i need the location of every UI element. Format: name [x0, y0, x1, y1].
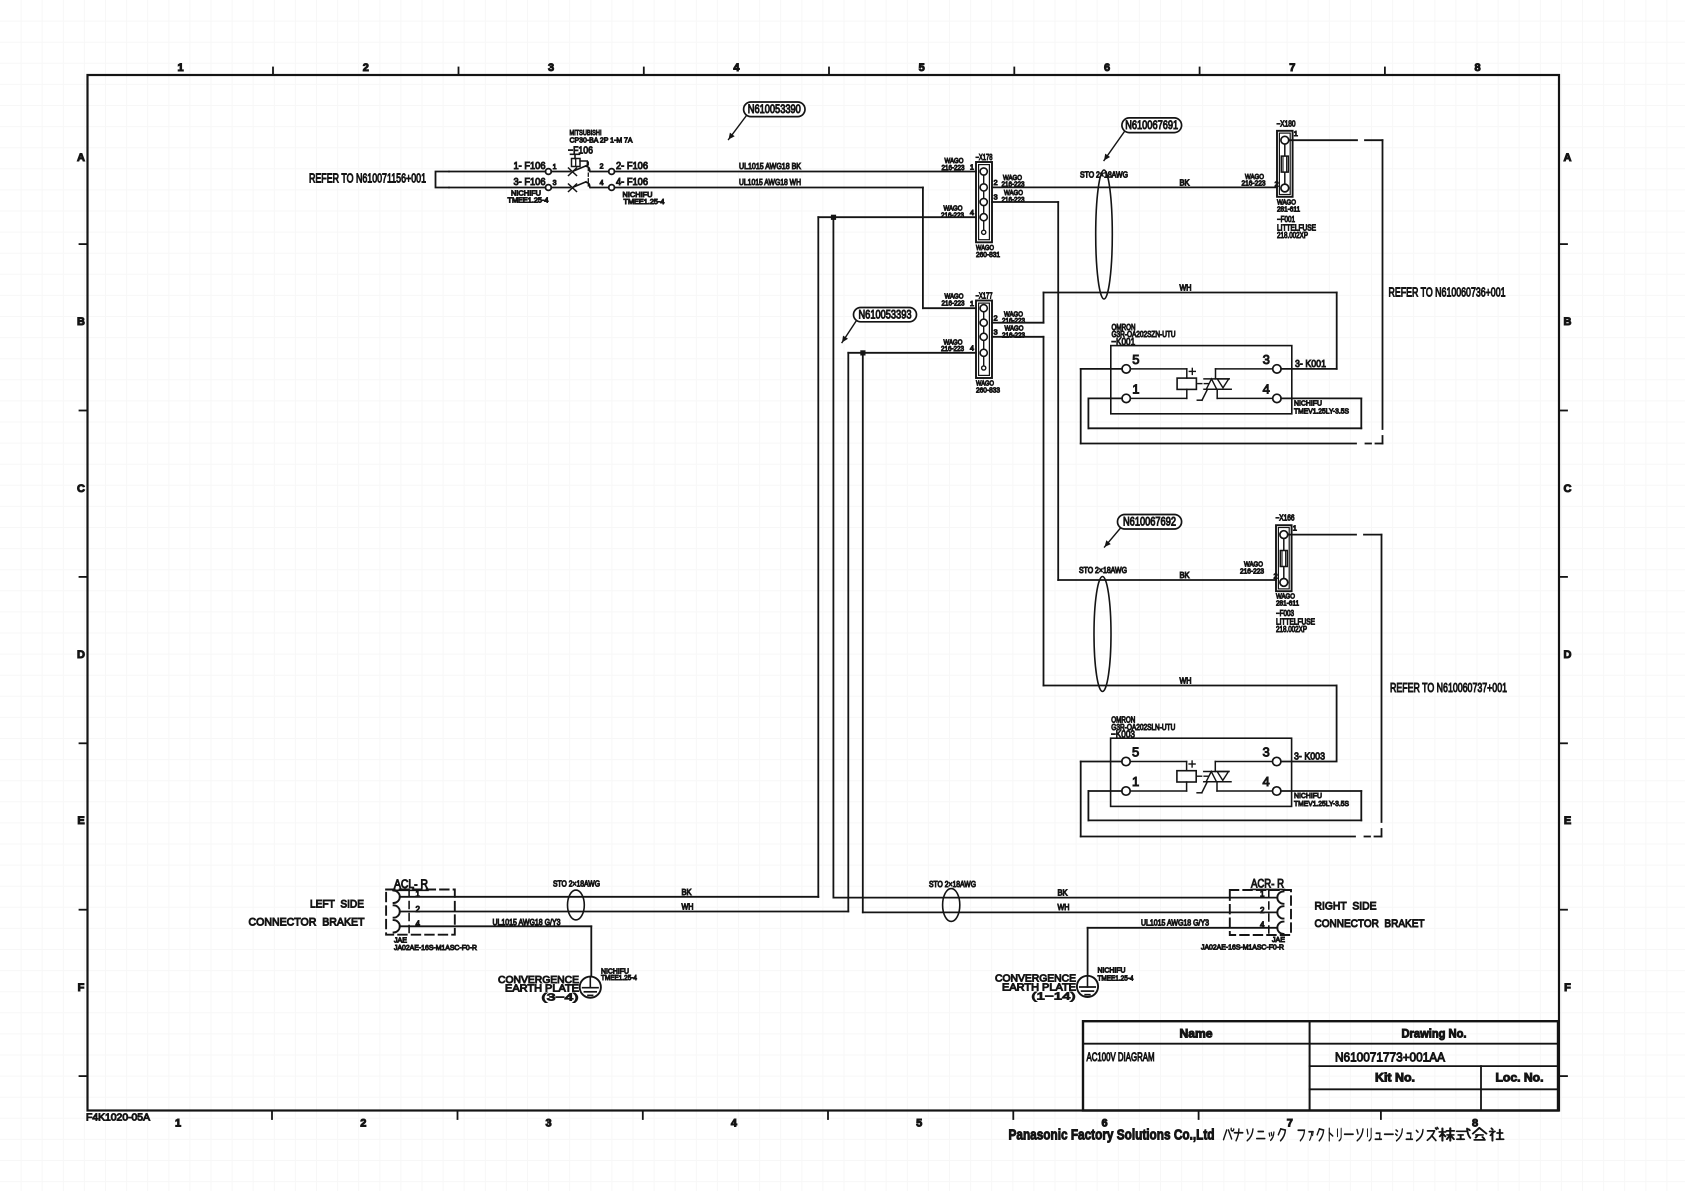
X177 WAGO 216-223 label pin3	[1002, 324, 1025, 340]
svg-text:B: B	[77, 316, 85, 328]
dashed boundary to REFER TO N610060736+001	[1289, 140, 1383, 443]
wire K001-3 to WH drop	[1281, 368, 1337, 370]
label NICHIFU TMEV1.25LY-3.5S (K001-4)	[1294, 398, 1349, 415]
svg-text:1: 1	[1260, 889, 1265, 898]
wire K001-1 / K001-4 loop	[1088, 398, 1361, 428]
fuse X166 / F003 (LITTELFUSE 218.002XP)	[1276, 514, 1316, 635]
svg-text:C: C	[77, 483, 85, 495]
svg-text:BK: BK	[1058, 889, 1069, 898]
wire X178-3 to circuit2 BK	[992, 202, 1276, 580]
X177 WAGO 216-223 label pin1	[942, 292, 965, 308]
wire K003-5 to boundary	[1081, 762, 1355, 837]
frame ruler: right row letters	[1559, 152, 1572, 1076]
svg-text:N610053393: N610053393	[859, 309, 912, 321]
svg-text:N610071773+001AA: N610071773+001AA	[1335, 1050, 1446, 1064]
X178 WAGO 216-223 label pin2	[1002, 173, 1025, 189]
X178 WAGO 216-223 label pin3	[1002, 188, 1025, 204]
label BK (bottom right)	[1058, 889, 1069, 898]
svg-text:C: C	[1564, 483, 1572, 495]
svg-text:STO 2×18AWG: STO 2×18AWG	[553, 880, 600, 889]
label 3- K003	[1294, 751, 1325, 763]
svg-text:2: 2	[994, 313, 998, 322]
wire X178-4 to bottom BK buses	[818, 216, 976, 218]
frame border	[88, 75, 1560, 1111]
svg-text:BK: BK	[1180, 178, 1191, 187]
svg-text:4: 4	[970, 208, 974, 217]
svg-text:1: 1	[970, 299, 974, 308]
WAGO 216-223 label at fuse X180	[1242, 172, 1279, 189]
svg-text:216-223: 216-223	[941, 344, 964, 353]
label 3- K001	[1295, 358, 1326, 370]
svg-text:3: 3	[1262, 745, 1269, 760]
svg-text:2: 2	[1260, 906, 1265, 915]
svg-text:7: 7	[1289, 62, 1295, 74]
form number F4K1020-05A	[86, 1113, 150, 1124]
svg-text:TMEV1.25LY-3.5S: TMEV1.25LY-3.5S	[1294, 406, 1349, 415]
svg-text:WH: WH	[682, 903, 694, 912]
svg-text:4: 4	[416, 920, 421, 929]
svg-text:JA02AE-16S-M1ASC-F0-R: JA02AE-16S-M1ASC-F0-R	[1201, 942, 1285, 951]
svg-text:8: 8	[1475, 62, 1481, 74]
svg-text:STO 2×18AWG: STO 2×18AWG	[1080, 170, 1128, 179]
svg-text:TMEE1.25-4: TMEE1.25-4	[624, 197, 665, 206]
svg-text:TMEE1.25-4: TMEE1.25-4	[508, 196, 549, 205]
relay K003 (OMRON G3R-OA202SLN-UTU solid state relay)	[1111, 716, 1292, 807]
svg-text:B: B	[1564, 316, 1572, 328]
frame ruler: left row letters	[77, 152, 87, 1076]
WAGO 216-223 label at fuse X166	[1240, 560, 1278, 581]
label NICHIFU TMEE1.25-4 (right earth)	[1098, 966, 1134, 983]
svg-text:REFER TO N610071156+001: REFER TO N610071156+001	[309, 172, 426, 186]
svg-text:UL1015 AWG18 BK: UL1015 AWG18 BK	[739, 162, 802, 171]
X177 pin numbers	[970, 299, 998, 353]
svg-text:2: 2	[416, 905, 421, 914]
svg-text:1: 1	[970, 163, 974, 172]
svg-text:260-833: 260-833	[976, 386, 1000, 395]
svg-text:TMEV1.25LY-3.5S: TMEV1.25LY-3.5S	[1294, 799, 1349, 808]
svg-text:281-611: 281-611	[1276, 599, 1299, 608]
wire BK bus right (to ACR-1)	[833, 897, 1277, 899]
balloon label N610067691	[1104, 118, 1182, 161]
earth: CONVERGENCE EARTH PLATE (3-4)	[498, 974, 601, 1004]
label BK (bottom left)	[682, 888, 693, 897]
svg-text:(1−14): (1−14)	[1032, 990, 1076, 1002]
balloon label N610067692	[1105, 515, 1182, 548]
svg-text:218.002XP: 218.002XP	[1277, 231, 1308, 240]
wire BK bus left (ACL-1)	[400, 896, 819, 898]
svg-text:(3−4): (3−4)	[542, 992, 579, 1004]
svg-text:F: F	[78, 982, 85, 994]
svg-text:REFER TO N610060737+001: REFER TO N610060737+001	[1390, 681, 1507, 695]
terminal label NICHIFU TMEE1.25-4 (left of F106)	[508, 189, 549, 205]
svg-text:2: 2	[994, 178, 998, 187]
svg-text:216-223: 216-223	[942, 163, 965, 172]
frame ruler: bottom column numbers	[175, 1111, 1478, 1130]
label WH (bottom left)	[682, 903, 694, 912]
node: REFER TO N610071156+001 (AC source)	[309, 172, 449, 188]
svg-text:1: 1	[177, 62, 183, 74]
connector ACL-R (JAE JA02AE-16S-M1ASC-F0-R)	[386, 877, 455, 935]
svg-text:281-611: 281-611	[1277, 204, 1300, 213]
svg-text:STO 2×18AWG: STO 2×18AWG	[1079, 566, 1127, 575]
svg-text:WH: WH	[1058, 903, 1070, 912]
svg-text:JA02AE-16S-M1ASC-F0-R: JA02AE-16S-M1ASC-F0-R	[394, 943, 478, 952]
connector X177 (WAGO 260-833)	[976, 292, 1001, 395]
svg-text:8: 8	[1472, 1118, 1478, 1130]
svg-text:218.002XP: 218.002XP	[1276, 625, 1307, 634]
svg-text:F4K1020-05A: F4K1020-05A	[86, 1113, 150, 1124]
wire K003-1 / K003-4 loop	[1088, 791, 1361, 820]
svg-text:CONNECTOR BRAKET: CONNECTOR BRAKET	[1315, 918, 1425, 930]
svg-text:5: 5	[919, 62, 925, 74]
label NICHIFU TMEE1.25-4 (left earth)	[601, 966, 637, 982]
svg-text:Drawing No.: Drawing No.	[1402, 1027, 1467, 1041]
wire UL1015 AWG18 BK (F106-2 to X178-1)	[615, 162, 977, 172]
X178 WAGO 216-223 label pin1	[942, 156, 965, 172]
svg-text:216-223: 216-223	[942, 299, 965, 308]
svg-text:1: 1	[1294, 129, 1298, 138]
label WH (bottom right)	[1058, 903, 1070, 912]
svg-text:Name: Name	[1180, 1027, 1213, 1041]
svg-text:AC100V DIAGRAM: AC100V DIAGRAM	[1087, 1052, 1155, 1064]
svg-text:CONNECTOR BRAKET: CONNECTOR BRAKET	[249, 916, 365, 928]
terminal label NICHIFU TMEE1.25-4 (right of F106)	[623, 190, 665, 206]
svg-text:D: D	[77, 649, 85, 661]
svg-text:6: 6	[1104, 62, 1110, 74]
svg-text:4: 4	[1262, 774, 1269, 789]
svg-text:3: 3	[1263, 352, 1270, 367]
svg-text:1: 1	[175, 1118, 181, 1130]
svg-text:260-831: 260-831	[976, 250, 1000, 259]
svg-text:2: 2	[363, 62, 369, 74]
connector ACR-R (JAE JA02AE-16S-M1ASC-F0-R)	[1230, 876, 1291, 935]
svg-text:1: 1	[1132, 381, 1139, 396]
svg-text:N610053390: N610053390	[748, 104, 801, 116]
wire G/Y left (ACL-4 to earth)	[400, 918, 592, 977]
svg-text:BK: BK	[682, 888, 693, 897]
svg-text:3: 3	[994, 193, 998, 202]
wire G/Y right (to ACR-4 and earth)	[1088, 919, 1278, 976]
svg-text:4: 4	[1260, 921, 1265, 930]
frame ruler: top column numbers	[177, 62, 1480, 75]
wire: right WH drop	[862, 353, 864, 913]
cable sheath STO 2x18AWG (bottom right)	[929, 880, 976, 921]
X177 WAGO 216-223 label pin2	[1002, 309, 1025, 325]
svg-text:4: 4	[970, 344, 974, 353]
text RIGHT SIDE CONNECTOR BRAKET	[1315, 901, 1425, 931]
svg-text:−X178: −X178	[976, 153, 993, 162]
svg-text:3: 3	[546, 1118, 552, 1130]
svg-text:N610067692: N610067692	[1123, 517, 1176, 529]
relay K001 (OMRON G3R-OA202SZN-UTU solid state relay)	[1111, 323, 1292, 414]
X177 WAGO 216-223 label pin4	[941, 337, 964, 353]
svg-text:D: D	[1564, 649, 1572, 661]
svg-text:N610067691: N610067691	[1125, 120, 1178, 132]
svg-text:3: 3	[548, 62, 554, 74]
ACL-R inner divider and pins	[394, 889, 421, 934]
svg-text:E: E	[1564, 815, 1571, 827]
cable sheath STO 2x18AWG (circuit 1)	[1080, 170, 1128, 299]
cable sheath STO 2x18AWG (bottom left)	[553, 880, 600, 920]
company name Panasonic Factory Solutions	[1009, 1127, 1504, 1143]
svg-text:LEFT SIDE: LEFT SIDE	[310, 899, 364, 911]
svg-text:RIGHT SIDE: RIGHT SIDE	[1315, 901, 1377, 913]
svg-text:−K001: −K001	[1111, 336, 1135, 348]
wire UL1015 AWG18 WH (F106-4 to X177-1)	[615, 178, 977, 308]
svg-text:Kit No.: Kit No.	[1375, 1070, 1415, 1084]
wire X177-3 to circuit2 WH	[992, 337, 1337, 761]
svg-text:2- F106: 2- F106	[616, 161, 648, 172]
title block table	[1083, 1021, 1558, 1110]
svg-text:3- F106: 3- F106	[514, 177, 546, 188]
label NICHIFU TMEV1.25LY-3.5S (K003-4)	[1294, 791, 1349, 808]
text LEFT SIDE CONNECTOR BRAKET	[249, 899, 365, 929]
wire: left WH drop	[847, 353, 849, 912]
circuit breaker F106 (MITSUBISHI CP30-BA 2P 1-M 7A)	[514, 128, 649, 192]
svg-text:4: 4	[733, 62, 740, 74]
svg-text:UL1015 AWG18 G/Y3: UL1015 AWG18 G/Y3	[493, 918, 561, 927]
svg-text:−X180: −X180	[1277, 119, 1296, 128]
X178 pin numbers	[970, 163, 998, 218]
connector X178 (WAGO 260-831)	[976, 153, 1001, 259]
wire X177-4 to bottom WH buses	[848, 352, 976, 354]
svg-text:1: 1	[1293, 524, 1297, 533]
svg-text:4- F106: 4- F106	[616, 177, 648, 188]
fuse X180 / F001 (LITTELFUSE 218.002XP)	[1277, 119, 1317, 240]
wire N to breaker pin3	[449, 187, 546, 189]
label JAE JA02AE-16S-M1ASC-F0-R (left)	[394, 936, 478, 953]
svg-text:TMEE1.25-4: TMEE1.25-4	[1098, 973, 1134, 982]
svg-text:1: 1	[1132, 774, 1139, 789]
earth: CONVERGENCE EARTH PLATE (1-14)	[995, 973, 1098, 1003]
svg-text:1: 1	[553, 164, 557, 171]
svg-text:−K003: −K003	[1111, 728, 1135, 740]
svg-text:UL1015 AWG18 G/Y3: UL1015 AWG18 G/Y3	[1141, 919, 1209, 928]
svg-text:7: 7	[1287, 1118, 1293, 1130]
svg-text:CP30-BA 2P 1-M 7A: CP30-BA 2P 1-M 7A	[570, 136, 633, 145]
balloon label N610053390	[729, 102, 806, 140]
svg-text:A: A	[77, 152, 85, 164]
svg-text:A: A	[1564, 152, 1572, 164]
dashed boundary to REFER TO N610060737+001	[1288, 535, 1382, 837]
X178 WAGO 216-223 label pin4	[941, 204, 964, 220]
svg-text:4: 4	[731, 1118, 738, 1130]
title block texts	[1087, 1027, 1544, 1085]
balloon label N610053393	[842, 308, 917, 343]
svg-text:1- F106: 1- F106	[514, 161, 546, 172]
svg-text:TMEE1.25-4: TMEE1.25-4	[601, 973, 637, 982]
svg-text:2: 2	[360, 1118, 366, 1130]
wire K003-3 to WH drop	[1281, 761, 1337, 763]
wire: right BK drop	[832, 217, 834, 897]
label BK (circuit 2)	[1180, 571, 1191, 580]
wire WH X177-2 to relay K001 pin3	[992, 284, 1337, 369]
svg-text:E: E	[77, 815, 84, 827]
wire: left BK drop	[817, 217, 819, 897]
svg-text:216-223: 216-223	[1242, 179, 1266, 188]
wire BK X178-2 to fuse X180	[992, 178, 1277, 187]
svg-text:5: 5	[1132, 745, 1139, 760]
label WH (circuit 2)	[1180, 677, 1192, 686]
svg-text:Loc. No.: Loc. No.	[1496, 1070, 1544, 1084]
cable sheath STO 2x18AWG (circuit 2)	[1079, 566, 1127, 692]
svg-text:Panasonic Factory Solutions Co: Panasonic Factory Solutions Co.,Ltd	[1009, 1128, 1215, 1144]
svg-text:WH: WH	[1180, 677, 1192, 686]
svg-text:4: 4	[600, 180, 604, 187]
svg-text:216-223: 216-223	[1240, 566, 1264, 575]
svg-text:2: 2	[600, 164, 604, 171]
wire WH bus left (ACL-2)	[400, 911, 849, 913]
text REFER TO N610060737+001	[1390, 681, 1507, 695]
svg-text:WH: WH	[1180, 284, 1192, 293]
text REFER TO N610060736+001	[1389, 285, 1506, 299]
svg-text:3: 3	[553, 180, 557, 187]
wire L to breaker pin1	[449, 171, 546, 173]
svg-text:BK: BK	[1180, 571, 1191, 580]
svg-text:−X177: −X177	[976, 292, 993, 301]
junction on X178-4 wire	[831, 215, 836, 220]
label JAE JA02AE-16S-M1ASC-F0-R (right)	[1201, 935, 1285, 952]
svg-text:REFER TO N610060736+001: REFER TO N610060736+001	[1389, 285, 1506, 299]
svg-text:5: 5	[1132, 352, 1139, 367]
svg-text:3: 3	[994, 328, 998, 337]
wire K001-5 to boundary	[1081, 369, 1356, 444]
svg-text:ACR- R: ACR- R	[1251, 876, 1284, 890]
junction on X177-4 wire	[860, 350, 865, 355]
svg-text:UL1015 AWG18 WH: UL1015 AWG18 WH	[739, 178, 801, 187]
svg-text:4: 4	[1263, 381, 1270, 396]
svg-text:STO 2×18AWG: STO 2×18AWG	[929, 880, 976, 889]
svg-text:F: F	[1564, 982, 1571, 994]
svg-text:−X166: −X166	[1276, 514, 1295, 523]
wire WH bus right (to ACR-2)	[863, 911, 1277, 913]
svg-text:5: 5	[916, 1118, 922, 1130]
svg-text:216-223: 216-223	[1002, 330, 1025, 339]
